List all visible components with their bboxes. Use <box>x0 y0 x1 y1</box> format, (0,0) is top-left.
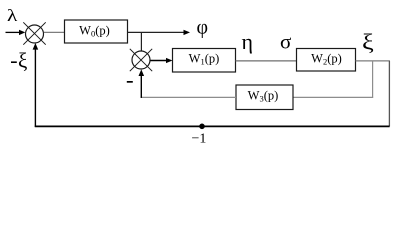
svg-text:σ: σ <box>280 30 291 54</box>
wire W1 to W2 <box>236 60 297 62</box>
svg-text:W1(p): W1(p) <box>189 52 220 67</box>
svg-text:ξ: ξ <box>18 49 27 73</box>
wire S2 to W1 arrow <box>150 58 172 63</box>
node dot on bottom line <box>199 124 205 130</box>
summing junction S2 <box>130 49 152 71</box>
svg-text:ξ: ξ <box>362 30 374 54</box>
block W2 <box>297 49 356 72</box>
wire right side to W3 input <box>293 96 373 98</box>
label minus at S2 <box>127 81 133 83</box>
wire inner feedback vertical (pickoff to W3 row) <box>372 61 374 98</box>
svg-text:W0(p): W0(p) <box>79 24 110 39</box>
svg-text:−1: −1 <box>192 132 207 147</box>
svg-text:W2(p): W2(p) <box>311 52 342 67</box>
label minus of minus-xi <box>11 61 17 63</box>
wire outer feedback vertical right <box>388 61 390 127</box>
wire W0 output to phi arrow <box>128 30 191 35</box>
svg-text:λ: λ <box>7 7 18 26</box>
summing junction S1 <box>23 22 45 44</box>
wire W3 output left to vertical riser <box>141 96 236 98</box>
svg-text:η: η <box>242 29 254 54</box>
svg-text:φ: φ <box>197 17 209 39</box>
wire S1 to W0 <box>44 31 65 33</box>
wire W2 output to right corner <box>356 60 390 62</box>
wire left riser up into S1 (negative input) <box>33 43 39 127</box>
wire input arrow into summer S1 <box>6 30 26 35</box>
wire branch down from phi line to summer S2 <box>140 32 142 51</box>
wire bottom feedback line <box>35 125 390 127</box>
block W0 <box>65 20 128 43</box>
block W3 <box>236 85 293 110</box>
wire riser up into S2 (negative input) <box>139 69 145 98</box>
svg-text:W3(p): W3(p) <box>248 89 279 104</box>
block W1 <box>173 49 236 73</box>
